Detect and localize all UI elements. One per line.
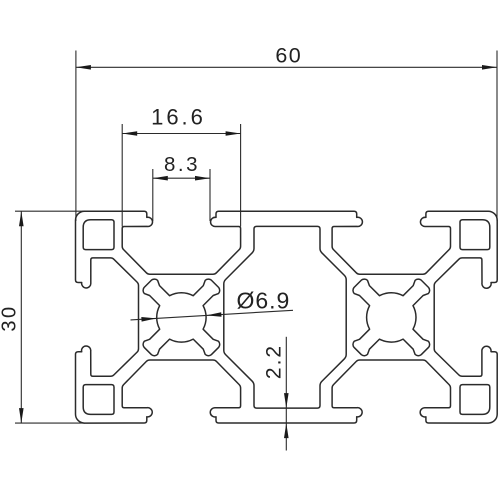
svg-text:16.6: 16.6 — [151, 105, 206, 130]
svg-text:8.3: 8.3 — [164, 153, 200, 176]
svg-text:Ø6.9: Ø6.9 — [236, 287, 290, 313]
svg-text:60: 60 — [275, 43, 302, 67]
svg-text:30: 30 — [0, 304, 21, 331]
svg-text:2.2: 2.2 — [262, 344, 285, 379]
